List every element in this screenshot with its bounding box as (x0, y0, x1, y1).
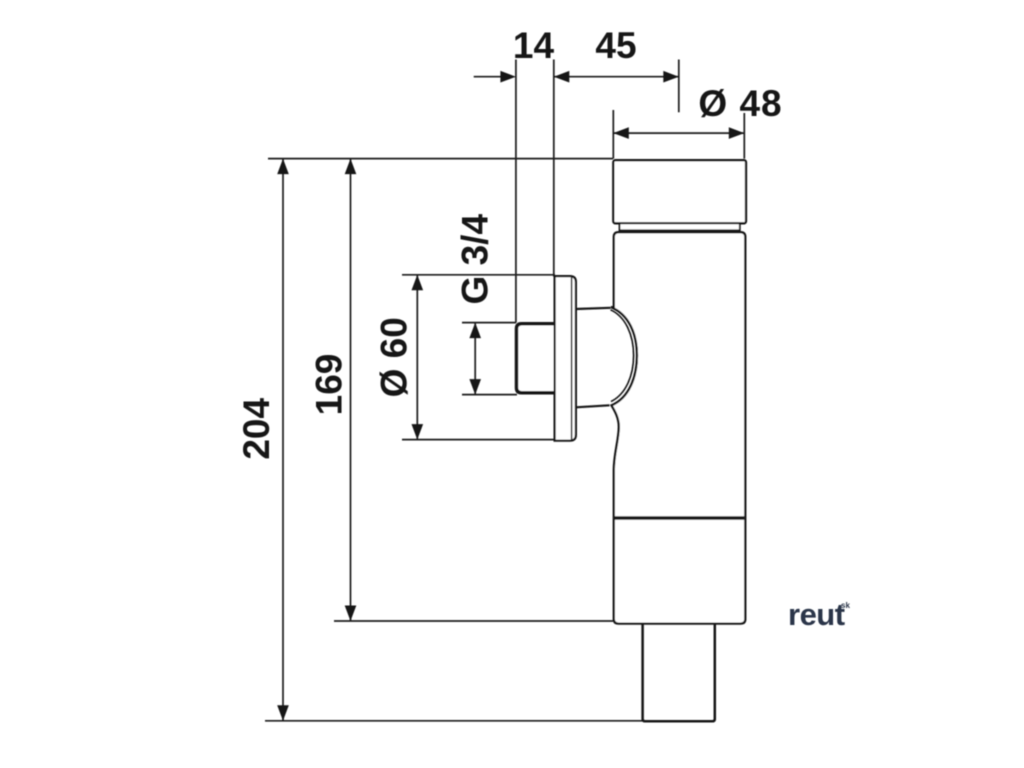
svg-text:sk: sk (841, 601, 850, 610)
top cap (613, 160, 746, 223)
arrowhead d60 bottom (points down) (412, 424, 424, 440)
svg-text:45: 45 (595, 25, 636, 66)
label diameter 60 (rotated) (374, 317, 415, 397)
arrowhead 169 top (points up) (345, 159, 357, 175)
outlet pipe (643, 624, 715, 722)
dimension line 204 (282, 159, 284, 721)
bulge inner contour line (611, 310, 634, 402)
arrowhead 45 left (points left) (554, 71, 570, 83)
extension line: diameter 48 right (743, 113, 745, 159)
svg-text:reut: reut (788, 597, 845, 632)
extension line: diameter 48 left (612, 110, 614, 159)
extension line: diameter 60 bottom (402, 439, 554, 441)
extension line: 204 bottom (outlet bottom) (265, 720, 643, 722)
extension line: diameter 60 top (402, 274, 555, 276)
svg-text:14: 14 (513, 25, 555, 66)
arrowhead d60 top (points up) (412, 275, 424, 291)
arrowhead 204 top (points up) (277, 159, 289, 175)
dimension line G3/4 (474, 323, 476, 395)
dimension line 14 leader (474, 76, 502, 78)
arrowhead G3/4 top (points up) (469, 323, 481, 339)
dimension line diameter 60 (416, 275, 418, 440)
extension line: 169 bottom (body bottom) (334, 620, 613, 622)
extension line: top datum (body top) (268, 158, 613, 160)
svg-text:Ø 48: Ø 48 (698, 83, 782, 124)
svg-text:Ø 60: Ø 60 (374, 317, 415, 397)
body divider line (614, 516, 744, 519)
extension line: 14 left (nipple face) (515, 60, 517, 323)
valve body with inlet bulge (611, 232, 745, 623)
svg-text:204: 204 (236, 398, 277, 460)
svg-text:169: 169 (309, 354, 350, 416)
neck bottom line (576, 405, 610, 407)
dimension line 169 (350, 159, 352, 621)
wall flange plate (555, 276, 576, 441)
arrowhead 204 bottom (points down) (277, 705, 289, 721)
label 169 (rotated) (309, 354, 350, 416)
arrowhead G3/4 bottom (points down) (469, 379, 481, 395)
flange rounded edge inner line (571, 278, 573, 440)
arrowhead 14 (points right) (500, 71, 516, 83)
label G3/4 (rotated) (455, 214, 496, 305)
svg-text:G 3/4: G 3/4 (455, 214, 496, 305)
arrowhead d48 right (points right) (729, 127, 745, 139)
inlet nipple G3/4 thread (517, 324, 557, 393)
dimension line 45 (554, 76, 679, 78)
arrowhead d48 left (points left) (613, 127, 629, 139)
extension line: G3/4 bottom (462, 394, 517, 396)
extension line: 14 right / 45 left (flange face) (553, 60, 555, 277)
cap collar band (620, 223, 740, 230)
extension line: 45 right (valve centerline) (678, 60, 680, 113)
extension line: G3/4 top (462, 322, 516, 324)
label 204 (rotated) (236, 398, 277, 460)
arrowhead 169 bottom (points down) (345, 606, 357, 622)
arrowhead 45 right (points right) (663, 71, 679, 83)
neck top line (576, 308, 611, 309)
dimension line diameter 48 (613, 132, 744, 134)
